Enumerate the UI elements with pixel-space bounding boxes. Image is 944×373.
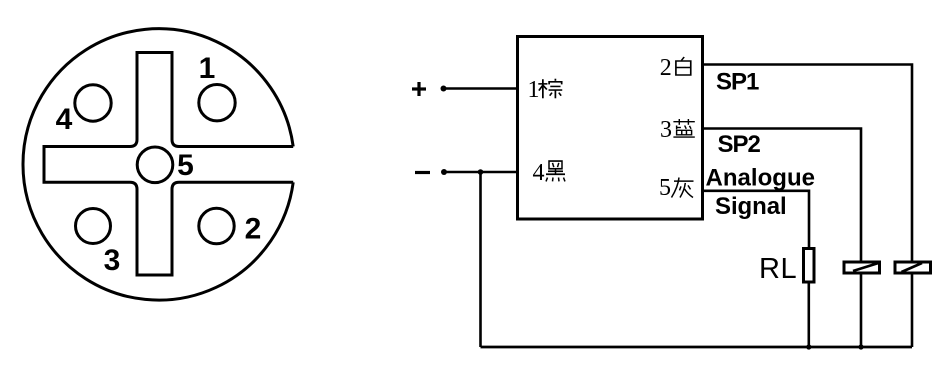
svg-text:5: 5 — [177, 149, 194, 182]
wire SP2 contact to rail — [860, 273, 863, 347]
bottom rail wire — [481, 346, 913, 349]
glyph hui (grey) — [672, 178, 694, 198]
resistor RL — [804, 249, 815, 283]
wire SP1 contact to rail — [911, 273, 914, 347]
svg-text:4: 4 — [56, 103, 73, 136]
SP1 wire — [703, 65, 913, 264]
svg-text:SP2: SP2 — [718, 131, 761, 158]
svg-text:1: 1 — [199, 52, 216, 85]
plus wire — [443, 87, 518, 90]
analogue signal wire — [703, 191, 810, 249]
svg-text:3: 3 — [660, 117, 672, 143]
pin 4 hole — [75, 85, 111, 121]
wire RL to rail — [807, 282, 810, 347]
switch contact SP1 — [895, 262, 931, 273]
glyph hei (black) — [546, 161, 565, 181]
svg-text:1: 1 — [528, 77, 540, 103]
glyph bai (white) — [676, 57, 691, 75]
connector body circle — [23, 29, 293, 300]
junction SP2 rail — [858, 344, 863, 349]
svg-text:2: 2 — [245, 213, 262, 246]
SP2 wire — [703, 129, 862, 263]
svg-text:5: 5 — [659, 175, 671, 201]
svg-text:Analogue: Analogue — [706, 165, 816, 192]
svg-text:SP1: SP1 — [716, 69, 759, 96]
pin 2 hole — [199, 208, 234, 243]
pin 5 hole — [137, 147, 173, 183]
glyph zong (brown) — [538, 79, 562, 99]
svg-text:2: 2 — [660, 55, 672, 81]
pin 1 hole — [199, 85, 235, 121]
minus terminal — [415, 171, 430, 174]
svg-text:Signal: Signal — [715, 193, 787, 220]
pin 3 hole — [76, 209, 111, 244]
svg-text:RL: RL — [759, 253, 797, 285]
switch contact SP2 — [844, 262, 880, 273]
svg-text:4: 4 — [533, 160, 545, 186]
svg-text:3: 3 — [104, 244, 121, 277]
plus terminal — [412, 82, 426, 96]
minus wire — [444, 171, 518, 174]
sensor box — [518, 37, 703, 220]
junction RL rail — [806, 344, 811, 349]
wire minus down to rail — [479, 172, 482, 347]
junction minus to rail — [478, 169, 484, 175]
keyway cross — [44, 53, 293, 276]
glyph lan (blue) — [673, 119, 694, 137]
